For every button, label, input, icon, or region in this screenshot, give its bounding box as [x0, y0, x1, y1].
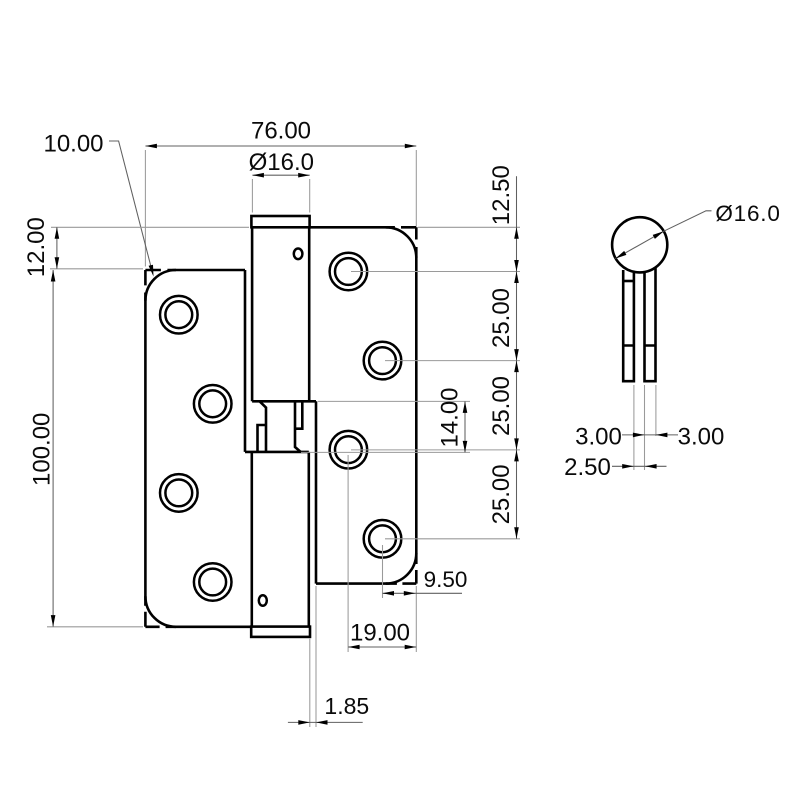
lower knuckle cap — [251, 627, 310, 637]
dimension 9.50 — [383, 545, 468, 652]
dimension 25.00 (first) — [488, 272, 519, 361]
svg-text:10.00: 10.00 — [43, 131, 103, 158]
right leaf corner arcs — [386, 227, 417, 583]
screw hole L2 — [194, 385, 232, 423]
left leaf right edge — [244, 270, 247, 452]
pin mark upper 0 — [294, 249, 303, 260]
svg-text:Ø16.0: Ø16.0 — [249, 149, 314, 176]
svg-text:100.00: 100.00 — [28, 413, 55, 486]
joint right notch — [295, 401, 302, 428]
detail: diameter arrow and leader Ø16.0 — [615, 201, 780, 259]
detail: leg mid ticks — [623, 344, 655, 347]
dimension 19.00 — [348, 455, 416, 652]
dimension 14.00 — [301, 387, 470, 452]
svg-text:3.00: 3.00 — [678, 424, 725, 451]
svg-text:25.00: 25.00 — [488, 288, 515, 348]
screw hole R3 — [330, 431, 368, 469]
dimension 25.00 (third) — [488, 450, 519, 539]
screw hole L3 — [160, 474, 198, 512]
dimension diameter 16.0 (top) — [249, 149, 314, 212]
svg-text:Ø16.0: Ø16.0 — [715, 201, 780, 226]
screw hole R2 — [364, 342, 402, 380]
lower knuckle barrel — [252, 452, 309, 627]
svg-text:25.00: 25.00 — [488, 376, 515, 436]
right leaf right edge (with corner gaps) — [415, 227, 418, 583]
upper knuckle barrel — [252, 227, 316, 401]
detail: extension lines below legs — [634, 385, 656, 470]
joint left step — [258, 425, 267, 452]
dimension 76.00 — [145, 118, 416, 267]
upper knuckle cap — [251, 216, 309, 227]
dimension 1.85 — [288, 586, 369, 727]
svg-text:14.00: 14.00 — [437, 387, 464, 447]
detail view: pin legs — [623, 268, 655, 381]
detail: left leg top tick — [623, 280, 634, 283]
detail dimension 3.00 / 3.00 — [575, 424, 724, 451]
svg-text:9.50: 9.50 — [424, 567, 468, 592]
detail dimension 2.50 — [564, 454, 666, 481]
right leaf bottom edge (with corner gap) — [316, 582, 416, 585]
right leaf left edge — [315, 401, 318, 583]
dimension 12.50 — [488, 165, 519, 271]
detail view: pin head circle — [612, 217, 667, 272]
left leaf left edge (with corner gaps) — [144, 270, 147, 627]
left leaf bottom edge (with corner gap) — [145, 625, 252, 628]
dimension 100.00 — [28, 270, 143, 627]
svg-text:12.50: 12.50 — [488, 165, 515, 225]
screw hole R1 — [330, 253, 368, 291]
screw hole R4 — [364, 520, 402, 558]
svg-text:1.85: 1.85 — [324, 693, 369, 719]
hinge pin block with chamfers — [260, 401, 301, 452]
dimension 12.00 — [23, 217, 249, 277]
right side extension lines — [351, 227, 520, 539]
svg-text:12.00: 12.00 — [23, 217, 50, 277]
screw hole L1 — [160, 296, 198, 334]
leader 10.00 (corner radius callout) — [43, 131, 153, 277]
left leaf corner arcs — [145, 270, 176, 627]
svg-text:2.50: 2.50 — [564, 454, 611, 481]
joint bottom edge — [245, 451, 309, 454]
svg-text:19.00: 19.00 — [350, 619, 410, 646]
svg-text:3.00: 3.00 — [575, 424, 622, 451]
svg-text:25.00: 25.00 — [488, 464, 515, 524]
pin mark lower 0 — [259, 595, 267, 606]
screw hole L4 — [194, 563, 232, 601]
dimension 25.00 (second) — [488, 361, 519, 450]
right leaf top edge (with corner gap) — [310, 226, 417, 229]
svg-text:76.00: 76.00 — [251, 118, 311, 145]
left leaf top edge (with corner gap) — [145, 269, 245, 272]
